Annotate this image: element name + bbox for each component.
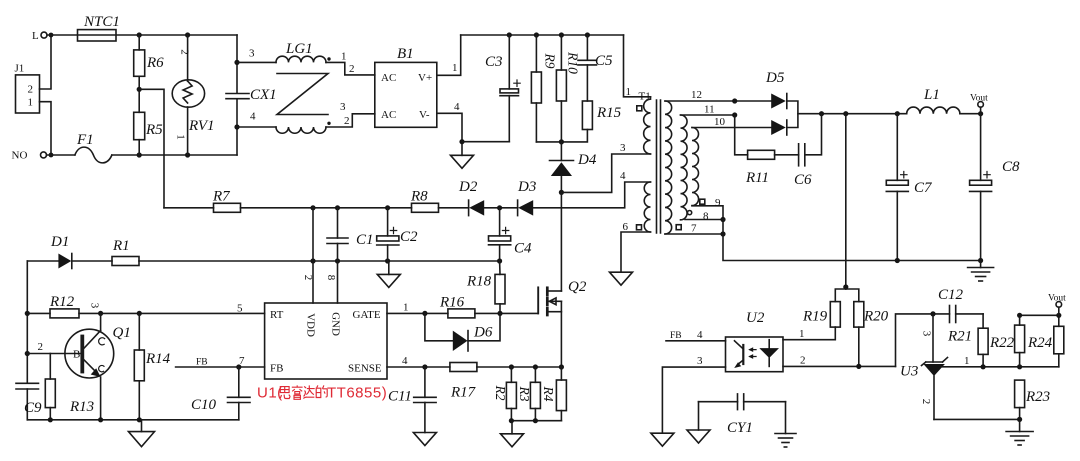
wire top rail NTC1 to CX1 <box>137 32 237 37</box>
svg-text:Vout: Vout <box>970 94 988 104</box>
svg-text:3: 3 <box>921 331 933 337</box>
svg-text:4: 4 <box>697 329 703 341</box>
svg-text:C12: C12 <box>938 287 964 303</box>
ground under B1 <box>451 155 474 168</box>
wire SENSE pin4 line <box>387 355 450 370</box>
wire output rail <box>798 111 907 116</box>
svg-text:R5: R5 <box>145 122 163 138</box>
capacitor C3 <box>462 35 520 142</box>
transformer T1 primary winding 1 <box>624 35 651 154</box>
capacitor C2 <box>377 208 418 261</box>
earth ground right of CY1 <box>775 402 796 447</box>
wire U3 anode to R23 bottom <box>934 417 1022 422</box>
svg-text:L: L <box>32 30 39 42</box>
IC U1 <box>265 303 387 379</box>
wire output to R19/R20 <box>843 114 848 290</box>
svg-text:U3: U3 <box>900 364 918 380</box>
svg-text:C3: C3 <box>485 54 503 70</box>
svg-text:2: 2 <box>38 341 44 353</box>
resistor R18 <box>466 261 505 313</box>
wire R17 to R2/R3/R4 <box>477 364 564 369</box>
svg-text:1: 1 <box>626 86 632 98</box>
svg-text:2: 2 <box>349 63 355 75</box>
svg-text:3: 3 <box>340 101 346 113</box>
capacitor C11 <box>388 367 436 433</box>
svg-text:TT6855): TT6855) <box>327 385 387 402</box>
svg-text:R12: R12 <box>49 294 75 310</box>
svg-text:U2: U2 <box>746 310 765 326</box>
svg-text:8: 8 <box>703 211 709 223</box>
resistor R23 <box>1015 380 1051 419</box>
svg-text:2: 2 <box>28 84 34 96</box>
wire R9/R10 bottoms joined <box>536 139 564 144</box>
svg-text:2: 2 <box>344 115 350 127</box>
svg-text:D2: D2 <box>458 179 478 195</box>
node NO terminal <box>12 150 54 162</box>
common-mode choke LG1 top winding <box>237 41 375 75</box>
svg-text:L1: L1 <box>923 87 940 103</box>
svg-text:3: 3 <box>249 48 255 60</box>
svg-text:4: 4 <box>250 111 256 123</box>
wire B1 V- pin4 to ground <box>437 101 462 155</box>
bridge rectifier B1 <box>375 46 437 127</box>
svg-text:C8: C8 <box>1002 159 1020 175</box>
svg-text:AC: AC <box>381 109 396 121</box>
resistor R15 <box>561 101 621 142</box>
wire R2/R3/R4 bottoms <box>509 418 562 423</box>
wire left vertical D1 to C9 <box>25 261 30 383</box>
svg-text:CX1: CX1 <box>250 87 277 103</box>
svg-text:FB: FB <box>270 363 283 375</box>
svg-text:4: 4 <box>402 355 408 367</box>
transformer T1 secondary winding 12-7 <box>665 101 672 234</box>
svg-text:4: 4 <box>454 101 460 113</box>
node D4 anode / T1 pin3 junction <box>559 190 564 195</box>
resistor R3 <box>517 367 540 421</box>
resistor R5 <box>134 89 163 155</box>
svg-text:R22: R22 <box>989 335 1015 351</box>
svg-text:R19: R19 <box>802 309 828 325</box>
wire GATE pin1 line <box>387 302 448 317</box>
capacitor C6 <box>794 114 822 188</box>
diode D6 <box>425 313 500 351</box>
svg-text:D3: D3 <box>517 179 536 195</box>
svg-text:1: 1 <box>452 62 458 74</box>
svg-text:2: 2 <box>302 275 314 281</box>
svg-text:U1(: U1( <box>257 385 283 402</box>
resistor R11 snubber <box>735 115 799 186</box>
node L terminal <box>32 30 53 42</box>
svg-text:R1: R1 <box>112 238 130 254</box>
svg-text:5: 5 <box>237 303 243 315</box>
svg-text:1: 1 <box>799 328 805 340</box>
ground under C2 <box>377 261 400 287</box>
diode D4 <box>550 142 597 193</box>
diode D1 <box>27 234 112 269</box>
svg-text:VDD: VDD <box>305 313 317 337</box>
svg-text:2: 2 <box>920 399 932 405</box>
capacitor C9 <box>16 383 42 420</box>
resistor R17 <box>450 363 477 401</box>
svg-text:FB: FB <box>670 331 682 341</box>
wire RT pin5 line <box>79 303 265 317</box>
svg-text:R15: R15 <box>596 105 622 121</box>
capacitor C5 <box>578 35 613 101</box>
transistor Q2 <box>538 279 587 367</box>
svg-text:R11: R11 <box>745 170 769 186</box>
wire bottom rail Q1 area <box>27 417 239 422</box>
fuse F1 <box>47 132 112 163</box>
earth ground under R23 <box>1006 419 1033 445</box>
svg-text:2: 2 <box>179 49 191 55</box>
svg-text:C4: C4 <box>514 241 532 257</box>
wire J1 pin1 to NO terminal <box>40 102 52 155</box>
transformer T1 primary winding 2 <box>637 182 651 232</box>
svg-text:C6: C6 <box>794 172 812 188</box>
ground under R2 <box>501 421 524 447</box>
svg-text:SENSE: SENSE <box>348 363 382 375</box>
svg-text:R18: R18 <box>466 274 492 290</box>
resistor R1 <box>112 238 139 266</box>
value label U1 red <box>257 385 387 402</box>
wire B1 V+ pin1 to top rail <box>437 35 461 75</box>
wire VDD pin2 line <box>302 208 314 303</box>
transistor Q1 <box>27 303 131 420</box>
resistor R19 <box>783 289 846 340</box>
wire T1 pin8 <box>685 211 726 223</box>
svg-text:B1: B1 <box>397 46 414 62</box>
wire GND rail (primary) <box>139 258 502 263</box>
common-mode choke LG1 coupling bar <box>277 74 328 115</box>
svg-text:R14: R14 <box>145 351 171 367</box>
svg-text:GATE: GATE <box>353 309 381 321</box>
capacitor C7 <box>886 114 933 263</box>
svg-text:RT: RT <box>270 309 284 321</box>
svg-text:R21: R21 <box>947 329 972 345</box>
svg-text:FB: FB <box>196 358 208 368</box>
svg-text:V-: V- <box>419 109 430 121</box>
svg-text:F1: F1 <box>76 132 94 148</box>
svg-text:R9: R9 <box>543 53 558 69</box>
wire bottom rail F1 to CX1 <box>112 152 237 157</box>
wire U2 pin4 FB stub <box>666 329 726 341</box>
wire R7 to R8 <box>241 205 412 210</box>
svg-text:R13: R13 <box>69 399 94 415</box>
svg-text:D4: D4 <box>577 152 597 168</box>
svg-text:1: 1 <box>341 51 347 63</box>
resistor R2 <box>493 367 516 421</box>
thermistor NTC1 <box>78 14 120 41</box>
svg-text:D6: D6 <box>473 325 493 341</box>
shunt regulator U3 <box>900 314 948 420</box>
svg-text:LG1: LG1 <box>285 41 313 57</box>
svg-text:R4: R4 <box>541 386 556 402</box>
wire GND pin8 line <box>325 275 337 281</box>
node Vout output <box>970 94 988 114</box>
transformer T1 secondary winding 11-8 <box>681 115 688 220</box>
resistor R16 <box>439 295 475 318</box>
ground under bottom rail <box>129 420 155 447</box>
svg-text:C2: C2 <box>400 229 418 245</box>
ground under U2 pin3 <box>651 433 674 446</box>
common-mode choke LG1 bottom winding <box>237 101 375 133</box>
svg-text:Vout: Vout <box>1048 294 1066 304</box>
svg-text:AC: AC <box>381 72 396 84</box>
capacitor C10 <box>191 367 250 420</box>
resistor R13 <box>45 354 94 420</box>
svg-text:12: 12 <box>691 89 702 101</box>
transformer T1 secondary winding 10-9 <box>692 128 699 206</box>
svg-text:R24: R24 <box>1027 335 1053 351</box>
resistor R7 <box>212 189 241 213</box>
svg-text:Q1: Q1 <box>113 325 131 341</box>
svg-text:NTC1: NTC1 <box>83 14 120 30</box>
optocoupler U2 <box>726 310 784 372</box>
svg-text:RV1: RV1 <box>188 118 215 134</box>
svg-text:GND: GND <box>330 312 342 336</box>
svg-text:11: 11 <box>704 104 715 116</box>
svg-text:1: 1 <box>403 302 409 314</box>
svg-text:C9: C9 <box>24 400 42 416</box>
svg-text:C7: C7 <box>914 180 933 196</box>
svg-text:1: 1 <box>175 134 187 140</box>
node CX1 pin3 junction <box>234 60 239 65</box>
capacitor C4 <box>489 208 533 261</box>
ground under T1 pin6 <box>610 272 633 285</box>
svg-text:9: 9 <box>715 197 721 209</box>
svg-text:1: 1 <box>28 96 34 108</box>
wire R6/R5 junction to R7 line <box>139 89 164 208</box>
wire T1 pin12 to D5 <box>665 89 771 104</box>
capacitor C8 <box>970 114 1020 263</box>
diode D2 <box>439 179 485 216</box>
diode D5 dual <box>765 70 798 135</box>
wire FB pin7 stub <box>176 355 265 370</box>
svg-text:D5: D5 <box>765 70 785 86</box>
transformer T1 core <box>657 100 661 233</box>
svg-text:D1: D1 <box>50 234 69 250</box>
wire T1 pin11 <box>681 104 738 118</box>
svg-text:J1: J1 <box>15 63 25 75</box>
inductor L1 <box>907 87 984 116</box>
svg-text:R2: R2 <box>493 385 508 401</box>
svg-text:R17: R17 <box>450 385 477 401</box>
svg-text:Q2: Q2 <box>568 279 587 295</box>
wire U2 pin2 riser to U3 line <box>896 311 950 366</box>
svg-text:7: 7 <box>691 223 697 235</box>
svg-text:R16: R16 <box>439 295 465 311</box>
svg-text:R23: R23 <box>1025 389 1050 405</box>
varistor RV1 <box>172 35 214 155</box>
resistor R4 <box>541 367 566 421</box>
wire T1 pin10 to D5 <box>692 116 771 128</box>
wire J1 pin2 to L terminal <box>40 35 52 89</box>
wire T1 pin6 to ground <box>621 221 651 272</box>
resistor R22 <box>989 315 1025 367</box>
svg-text:8: 8 <box>325 275 337 281</box>
svg-text:C1: C1 <box>356 232 374 248</box>
capacitor C12 <box>938 287 983 323</box>
wire top rail B1 to T1 <box>461 32 624 37</box>
resistor R20 <box>846 289 889 366</box>
svg-text:1: 1 <box>964 355 970 367</box>
svg-text:R6: R6 <box>146 55 164 71</box>
capacitor CY1 <box>699 394 786 436</box>
wire L to NTC1 <box>47 34 139 36</box>
wire U3 ref line <box>941 355 1059 369</box>
svg-text:NO: NO <box>12 150 28 162</box>
wire R16 to Q2 gate <box>475 311 538 316</box>
resistor R12 <box>27 294 79 318</box>
svg-text:C5: C5 <box>595 53 613 69</box>
wire U2 pin3 to ground <box>662 355 725 433</box>
svg-text:C10: C10 <box>191 397 217 413</box>
capacitor C1 <box>327 208 374 303</box>
svg-text:V+: V+ <box>418 72 432 84</box>
resistor R14 <box>134 313 170 419</box>
resistor R9 <box>531 35 557 142</box>
node CX1 pin4 junction <box>234 124 239 129</box>
ground under C11 <box>413 433 436 446</box>
svg-text:R3: R3 <box>517 386 532 402</box>
svg-text:10: 10 <box>714 116 726 128</box>
wire R22/R24 tops <box>1017 313 1061 318</box>
wire D3 to T1 pin4 <box>533 170 650 208</box>
svg-text:3: 3 <box>89 303 101 309</box>
svg-text:4: 4 <box>620 170 626 182</box>
svg-text:R8: R8 <box>410 189 428 205</box>
wire U2 pin1 to R19 <box>799 328 805 340</box>
svg-text:3: 3 <box>620 142 626 154</box>
svg-text:2: 2 <box>800 355 806 367</box>
svg-text:B: B <box>73 349 80 361</box>
wire T1 pin3 <box>561 142 650 192</box>
wire T1 pin9 <box>692 197 723 220</box>
wire T1 pin7 to output return <box>665 220 981 261</box>
resistor R24 <box>1027 315 1064 367</box>
svg-text:3: 3 <box>697 355 703 367</box>
resistor R6 <box>134 35 164 89</box>
node R6/R5 junction <box>137 87 142 92</box>
node C3 return junction <box>459 139 464 144</box>
resistor R21 <box>947 314 988 367</box>
connector J1 <box>15 63 40 114</box>
earth ground under C8 <box>968 261 994 282</box>
svg-text:6: 6 <box>623 221 629 233</box>
svg-text:C11: C11 <box>388 389 412 405</box>
wire D4 anode down to Q2 drain <box>560 192 562 291</box>
capacitor CX1 <box>226 35 277 155</box>
node Vout bottom right <box>1048 294 1066 316</box>
svg-text:T1: T1 <box>639 91 651 103</box>
ground left of CY1 <box>687 402 710 443</box>
diode D3 <box>517 179 536 216</box>
node C4 top junction <box>484 205 517 210</box>
svg-text:CY1: CY1 <box>727 420 753 436</box>
svg-text:R20: R20 <box>863 309 889 325</box>
svg-text:R10: R10 <box>566 51 581 74</box>
resistor R8 <box>410 189 439 213</box>
svg-text:R7: R7 <box>212 189 231 205</box>
resistor R10 <box>556 35 580 142</box>
wire U2 pin2 line <box>783 355 896 370</box>
wire R7 line left segment <box>164 207 214 209</box>
